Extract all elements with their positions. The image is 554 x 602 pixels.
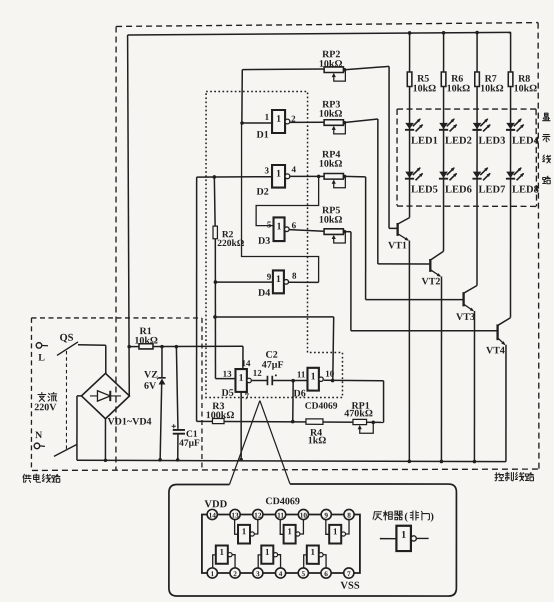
svg-text:VT4: VT4: [486, 345, 505, 356]
svg-text:VT1: VT1: [388, 240, 407, 251]
svg-text:5: 5: [267, 219, 272, 229]
svg-text:13: 13: [231, 511, 239, 520]
svg-text:2: 2: [233, 569, 237, 578]
svg-text:9: 9: [267, 272, 272, 282]
svg-text:LED5: LED5: [411, 184, 438, 195]
svg-text:1: 1: [242, 526, 247, 536]
svg-text:N: N: [35, 430, 43, 441]
svg-text:VT2: VT2: [422, 276, 441, 287]
svg-text:3: 3: [256, 569, 260, 578]
svg-text:VSS: VSS: [340, 581, 359, 592]
svg-text:14: 14: [241, 358, 251, 368]
svg-text:D5: D5: [221, 388, 233, 399]
svg-text:1: 1: [277, 221, 282, 232]
svg-text:10kΩ: 10kΩ: [447, 83, 471, 94]
svg-text:1: 1: [276, 114, 281, 125]
svg-text:D2: D2: [257, 187, 269, 198]
svg-text:1: 1: [287, 526, 292, 536]
svg-text:VZ: VZ: [144, 370, 158, 381]
svg-text:1: 1: [239, 373, 244, 384]
svg-text:10kΩ: 10kΩ: [319, 59, 343, 70]
svg-text:QS: QS: [59, 333, 73, 344]
svg-text:47μF: 47μF: [262, 360, 284, 371]
svg-text:1: 1: [311, 547, 316, 557]
svg-text:10: 10: [300, 511, 308, 520]
svg-text:LED7: LED7: [479, 184, 506, 195]
svg-text:CD4069: CD4069: [305, 402, 338, 412]
svg-text:13: 13: [223, 369, 233, 379]
svg-text:11: 11: [297, 369, 306, 379]
svg-text:6V: 6V: [144, 381, 157, 392]
svg-text:10: 10: [325, 369, 335, 379]
svg-text:L: L: [38, 353, 45, 364]
svg-text:LED3: LED3: [479, 136, 506, 147]
svg-text:1: 1: [311, 371, 316, 382]
svg-text:7: 7: [347, 569, 351, 578]
svg-text:VD1~VD4: VD1~VD4: [107, 417, 151, 428]
svg-text:1: 1: [401, 530, 406, 541]
svg-text:9: 9: [324, 511, 328, 520]
svg-text:D3: D3: [258, 236, 270, 247]
svg-text:220kΩ: 220kΩ: [217, 239, 245, 249]
svg-text:1: 1: [265, 112, 270, 122]
svg-text:D4: D4: [258, 288, 270, 299]
svg-text:D1: D1: [257, 130, 269, 141]
svg-text:6: 6: [292, 220, 297, 230]
svg-text:4: 4: [292, 164, 297, 174]
svg-text:5: 5: [301, 569, 305, 578]
svg-text:1: 1: [276, 274, 281, 285]
svg-text:1: 1: [210, 569, 214, 578]
svg-text:1kΩ: 1kΩ: [308, 435, 327, 446]
svg-text:VDD: VDD: [204, 499, 227, 510]
svg-text:10kΩ: 10kΩ: [134, 336, 158, 347]
svg-text:10kΩ: 10kΩ: [514, 83, 538, 94]
svg-text:14: 14: [209, 511, 217, 520]
svg-text:6: 6: [324, 569, 328, 578]
svg-text:LED4: LED4: [512, 136, 540, 147]
svg-text:7: 7: [245, 391, 250, 401]
svg-text:220V: 220V: [34, 402, 57, 413]
svg-text:47μF: 47μF: [179, 439, 200, 449]
svg-text:(: (: [404, 512, 408, 523]
svg-text:10kΩ: 10kΩ: [413, 83, 437, 94]
svg-text:LED6: LED6: [445, 184, 472, 195]
svg-text:3: 3: [265, 165, 270, 175]
svg-text:12: 12: [254, 511, 262, 520]
svg-text:LED1: LED1: [411, 136, 438, 147]
svg-text:10kΩ: 10kΩ: [319, 109, 343, 120]
svg-text:D6: D6: [294, 388, 306, 399]
svg-text:10kΩ: 10kΩ: [319, 215, 343, 226]
svg-text:VT3: VT3: [456, 312, 475, 323]
svg-text:11: 11: [277, 511, 284, 520]
svg-text:): ): [430, 512, 434, 523]
svg-text:1: 1: [265, 547, 270, 557]
svg-text:8: 8: [347, 511, 351, 520]
svg-text:4: 4: [279, 569, 283, 578]
svg-text:LED2: LED2: [445, 136, 472, 147]
svg-text:1: 1: [276, 169, 281, 180]
svg-text:470kΩ: 470kΩ: [344, 408, 373, 419]
svg-text:CD4069: CD4069: [265, 496, 299, 507]
svg-text:1: 1: [333, 526, 338, 536]
svg-text:1: 1: [220, 547, 225, 557]
svg-text:LED8: LED8: [512, 184, 539, 195]
svg-text:8: 8: [292, 271, 297, 281]
svg-text:10kΩ: 10kΩ: [480, 83, 504, 94]
svg-text:100kΩ: 100kΩ: [206, 410, 235, 421]
svg-text:10kΩ: 10kΩ: [319, 159, 343, 170]
